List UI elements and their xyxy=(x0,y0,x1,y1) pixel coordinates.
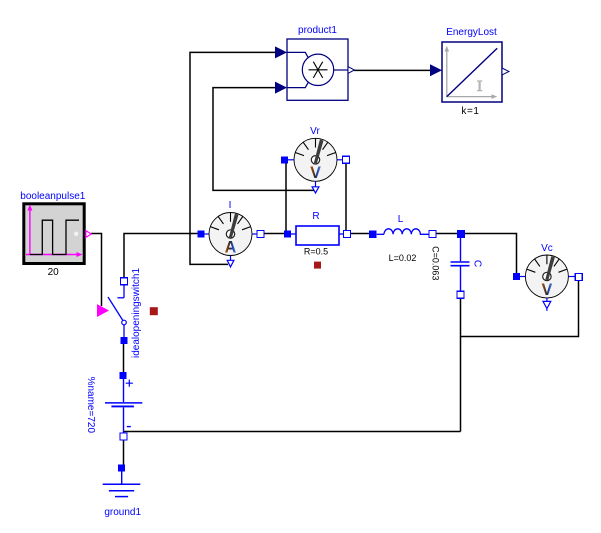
I output stub xyxy=(230,256,232,261)
battery minus pin (open square) xyxy=(120,433,127,440)
idealopeningswitch1 xyxy=(97,268,158,359)
wire switch top node to ammeter left pin xyxy=(124,234,198,278)
EnergyLost input arrowhead xyxy=(430,64,442,76)
inductor L xyxy=(369,214,436,263)
I needle xyxy=(229,214,239,238)
switch top pin (open square) xyxy=(121,278,128,285)
wire Vr right pin down to R right pin xyxy=(345,163,347,231)
wire Vr output to product1 input2 xyxy=(213,88,315,191)
Vr left pin (filled square) xyxy=(281,156,288,163)
booleanpulse1 y axis xyxy=(29,209,31,255)
wire bottom rail to battery minus pin xyxy=(124,431,461,433)
switch contact hook xyxy=(117,297,124,299)
I left pin (filled square) xyxy=(197,231,204,238)
svg-text:C: C xyxy=(472,260,483,267)
wire Vr left pin down to R left node xyxy=(285,163,287,231)
svg-text:R: R xyxy=(312,211,319,222)
capacitor C xyxy=(431,230,483,298)
L left pin (filled square) xyxy=(369,231,377,239)
C bottom pin (open square) xyxy=(457,291,464,298)
booleanpulse1 output connector xyxy=(86,231,92,238)
I pivot xyxy=(226,230,234,238)
svg-text:A: A xyxy=(225,238,237,256)
C plate top xyxy=(451,261,470,263)
svg-text:booleanpulse1: booleanpulse1 xyxy=(20,191,85,202)
wire L right pin to node C top xyxy=(436,233,458,235)
EnergyLost x axis xyxy=(446,96,493,98)
wire node C top to Vc left pin xyxy=(464,234,517,274)
EnergyLost y axis xyxy=(446,50,448,97)
svg-text:%name=720: %name=720 xyxy=(85,377,96,434)
R right pin (open square) xyxy=(344,231,351,238)
EnergyLost diagonal xyxy=(447,48,497,96)
I output triangle xyxy=(227,260,234,267)
ground bar 2 xyxy=(109,490,134,492)
switch top lead xyxy=(123,285,125,298)
svg-text:product1: product1 xyxy=(298,25,337,36)
Vc output triangle xyxy=(543,301,551,308)
C top lead xyxy=(460,238,462,261)
C plate bottom xyxy=(451,265,470,267)
switch bottom lead xyxy=(123,325,125,337)
battery plus pin (filled square) xyxy=(120,372,127,379)
svg-text:C=0.063: C=0.063 xyxy=(431,246,441,280)
wire ammeter output to product1 input1 xyxy=(190,52,276,264)
Vc pivot xyxy=(543,272,551,280)
wire booleanpulse1 output to switch control input xyxy=(91,234,102,307)
product1 inner input lines xyxy=(287,52,308,87)
battery minus sign xyxy=(127,426,131,428)
I right stub xyxy=(252,233,259,235)
product1 multiply asterisk xyxy=(309,62,328,78)
I gauge circle xyxy=(209,213,252,256)
voltage sensor Vc xyxy=(513,243,582,311)
switch bottom pin (filled square) xyxy=(121,337,128,344)
svg-text:L: L xyxy=(398,214,404,225)
product1 inner output line xyxy=(334,69,348,71)
ground stem xyxy=(121,471,123,484)
ground1 xyxy=(103,464,142,518)
I gauge ticks xyxy=(210,213,250,230)
battery plus sign xyxy=(126,380,133,387)
Vc needle xyxy=(545,256,555,280)
Vc output tail xyxy=(546,309,548,311)
product1 block xyxy=(275,25,354,101)
Vr pivot xyxy=(311,156,319,164)
ground pin (filled square) xyxy=(118,464,125,471)
svg-text:V: V xyxy=(541,281,552,299)
svg-text:R=0.5: R=0.5 xyxy=(304,246,328,256)
switch hinge circle xyxy=(122,320,127,325)
red marker below R xyxy=(314,262,321,269)
Vc output stub xyxy=(546,298,548,301)
Vc left stub xyxy=(519,276,526,278)
EnergyLost output connector xyxy=(502,68,509,75)
R body xyxy=(296,226,339,245)
svg-text:V: V xyxy=(310,164,321,182)
svg-text:k=1: k=1 xyxy=(461,106,479,117)
product1 input arrowhead 1 xyxy=(275,46,287,58)
wire battery minus pin down to ground pin xyxy=(123,440,125,465)
R left node pin (filled square) xyxy=(284,231,291,238)
wire C bottom pin down to bottom rail xyxy=(460,298,462,432)
svg-text:Vr: Vr xyxy=(310,126,320,137)
product1 output connector xyxy=(348,67,354,74)
booleanpulse1 pulse waveform xyxy=(30,220,79,254)
node junction L/C/Vc (filled square) xyxy=(457,230,465,238)
EnergyLost integrator block xyxy=(430,27,509,117)
current sensor I (ammeter) xyxy=(197,200,264,267)
svg-text:Vc: Vc xyxy=(541,243,553,254)
switch control input arrowhead xyxy=(97,304,109,317)
wire switch bottom pin to battery plus pin xyxy=(123,344,125,372)
product1 input arrowhead 2 xyxy=(275,82,287,94)
Vr right pin (open square) xyxy=(343,156,350,163)
Vr output stub xyxy=(315,181,317,187)
I left stub xyxy=(203,233,210,235)
wire Vc right pin down to bottom rail xyxy=(461,280,579,336)
resistor R xyxy=(284,211,351,269)
battery voltage source xyxy=(85,372,142,440)
svg-text:EnergyLost: EnergyLost xyxy=(446,27,497,38)
ground bar 1 xyxy=(103,483,141,485)
Vr gauge ticks xyxy=(295,138,335,155)
svg-text:20: 20 xyxy=(48,267,60,278)
I right pin (open square) xyxy=(257,231,264,238)
ground bar 3 xyxy=(115,496,128,498)
Vr needle xyxy=(314,139,324,163)
booleanpulse1 dot xyxy=(74,232,78,236)
wire product1 output to EnergyLost input xyxy=(354,69,431,71)
L coil xyxy=(384,229,429,235)
Vr gauge circle xyxy=(294,138,337,181)
booleanpulse1 x axis xyxy=(26,254,78,256)
L left stub xyxy=(377,233,384,235)
Vc right stub xyxy=(568,276,575,278)
Vc right pin (open square) xyxy=(575,273,582,280)
svg-text:ground1: ground1 xyxy=(104,507,141,518)
Vc gauge ticks xyxy=(527,255,567,272)
switch blade xyxy=(108,297,123,321)
Vc left pin (filled square) xyxy=(513,273,520,280)
battery long plate xyxy=(105,402,142,404)
Vr right stub xyxy=(337,159,344,161)
voltage sensor Vr xyxy=(281,126,350,193)
svg-text:L=0.02: L=0.02 xyxy=(389,253,417,263)
R right stub xyxy=(339,233,344,235)
C bottom lead xyxy=(460,267,462,292)
wire ammeter right pin to node R left xyxy=(264,233,285,235)
red marker near switch xyxy=(150,307,158,315)
svg-text:I: I xyxy=(229,200,232,211)
R left stub xyxy=(289,233,296,235)
battery bottom lead xyxy=(123,408,125,434)
battery short plate xyxy=(111,405,133,407)
wire R right pin to L left pin xyxy=(351,233,371,235)
Vr left stub xyxy=(288,159,295,161)
booleanpulse1 block xyxy=(20,191,91,278)
battery top lead xyxy=(123,379,125,402)
L right pin (open square) xyxy=(429,231,436,238)
svg-text:idealopeningswitch1: idealopeningswitch1 xyxy=(131,268,142,359)
Vr output triangle xyxy=(312,187,319,193)
EnergyLost I letter xyxy=(477,81,482,91)
Vc gauge circle xyxy=(525,255,568,298)
